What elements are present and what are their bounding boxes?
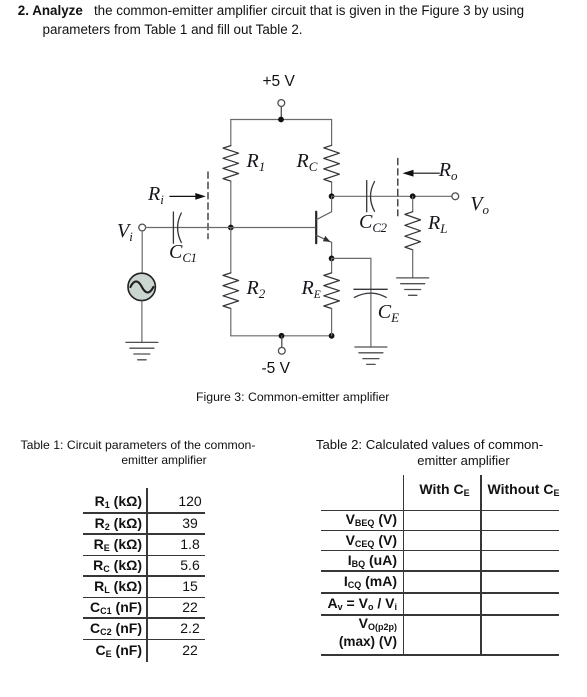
transistor Q1 — [316, 196, 331, 258]
junction -5V terminal — [279, 333, 285, 339]
junction on +5V rail — [278, 117, 284, 123]
wire Vi to base (through CC1) — [146, 227, 316, 229]
node collector junction — [329, 193, 335, 199]
resistor RC — [324, 145, 340, 182]
label +5 V — [263, 73, 295, 91]
capacitor CE — [354, 289, 387, 297]
label RC — [297, 150, 317, 175]
label Ri — [148, 183, 163, 208]
resistor R1 — [223, 146, 239, 182]
wire emitter to CE branch — [332, 258, 371, 347]
ground source — [126, 342, 158, 359]
dashed line Ri reference — [207, 172, 209, 239]
label Ro — [439, 159, 457, 184]
label Vo — [470, 193, 488, 218]
wire output node to RL — [412, 196, 414, 211]
terminal Vo — [452, 193, 459, 200]
header problem text line 1 — [18, 4, 524, 17]
TABLE 1 — [0, 0, 587, 1]
wire rail to R1 — [230, 120, 232, 146]
top rail wire — [231, 119, 332, 121]
table 1 title — [137, 437, 139, 439]
junction RE to rail — [329, 333, 335, 339]
node base junction — [228, 225, 234, 231]
capacitor CC2 — [367, 181, 375, 212]
resistor R2 — [223, 273, 239, 309]
bottom rail wire — [231, 335, 332, 337]
node emitter junction — [329, 256, 335, 262]
ground CE — [355, 347, 387, 364]
TABLE 2 — [0, 0, 587, 1]
-5V supply terminal — [278, 336, 285, 354]
wire Vi to source — [141, 231, 143, 274]
wire rail to RC — [331, 120, 333, 146]
resistor RL — [405, 212, 421, 250]
wire collector to output (through CC2) — [332, 195, 452, 197]
junction output node — [410, 193, 416, 199]
capacitor CC1 — [173, 212, 181, 243]
label R1 — [247, 150, 265, 175]
label RE — [302, 277, 321, 301]
wire R2 to bottom rail — [230, 309, 232, 336]
label RL — [428, 212, 447, 237]
terminal Vi — [139, 224, 146, 231]
label Vi — [117, 220, 132, 245]
label CC1 — [169, 241, 197, 266]
figure caption — [196, 390, 389, 404]
label -5 V — [262, 360, 290, 378]
label CE — [378, 301, 399, 326]
wire base node to R2 — [230, 228, 232, 273]
arrow Ro — [403, 170, 440, 177]
label R2 — [247, 277, 265, 302]
resistor RE — [324, 273, 340, 309]
wire RL to ground — [412, 250, 414, 278]
header problem text line 2 — [43, 23, 303, 36]
wire emitter to RE — [331, 258, 333, 273]
wire source to ground — [141, 301, 143, 342]
AC source VS — [128, 273, 155, 300]
arrow Ri — [170, 193, 206, 200]
wire RE to bottom rail — [331, 309, 333, 336]
label CC2 — [359, 211, 387, 236]
ground RL — [397, 278, 429, 295]
+5V supply terminal — [278, 100, 285, 120]
table 2 title — [429, 436, 431, 438]
wire RC to collector node — [331, 182, 333, 196]
dashed line Ro reference — [397, 158, 399, 215]
wire R1 to base node — [230, 181, 232, 227]
